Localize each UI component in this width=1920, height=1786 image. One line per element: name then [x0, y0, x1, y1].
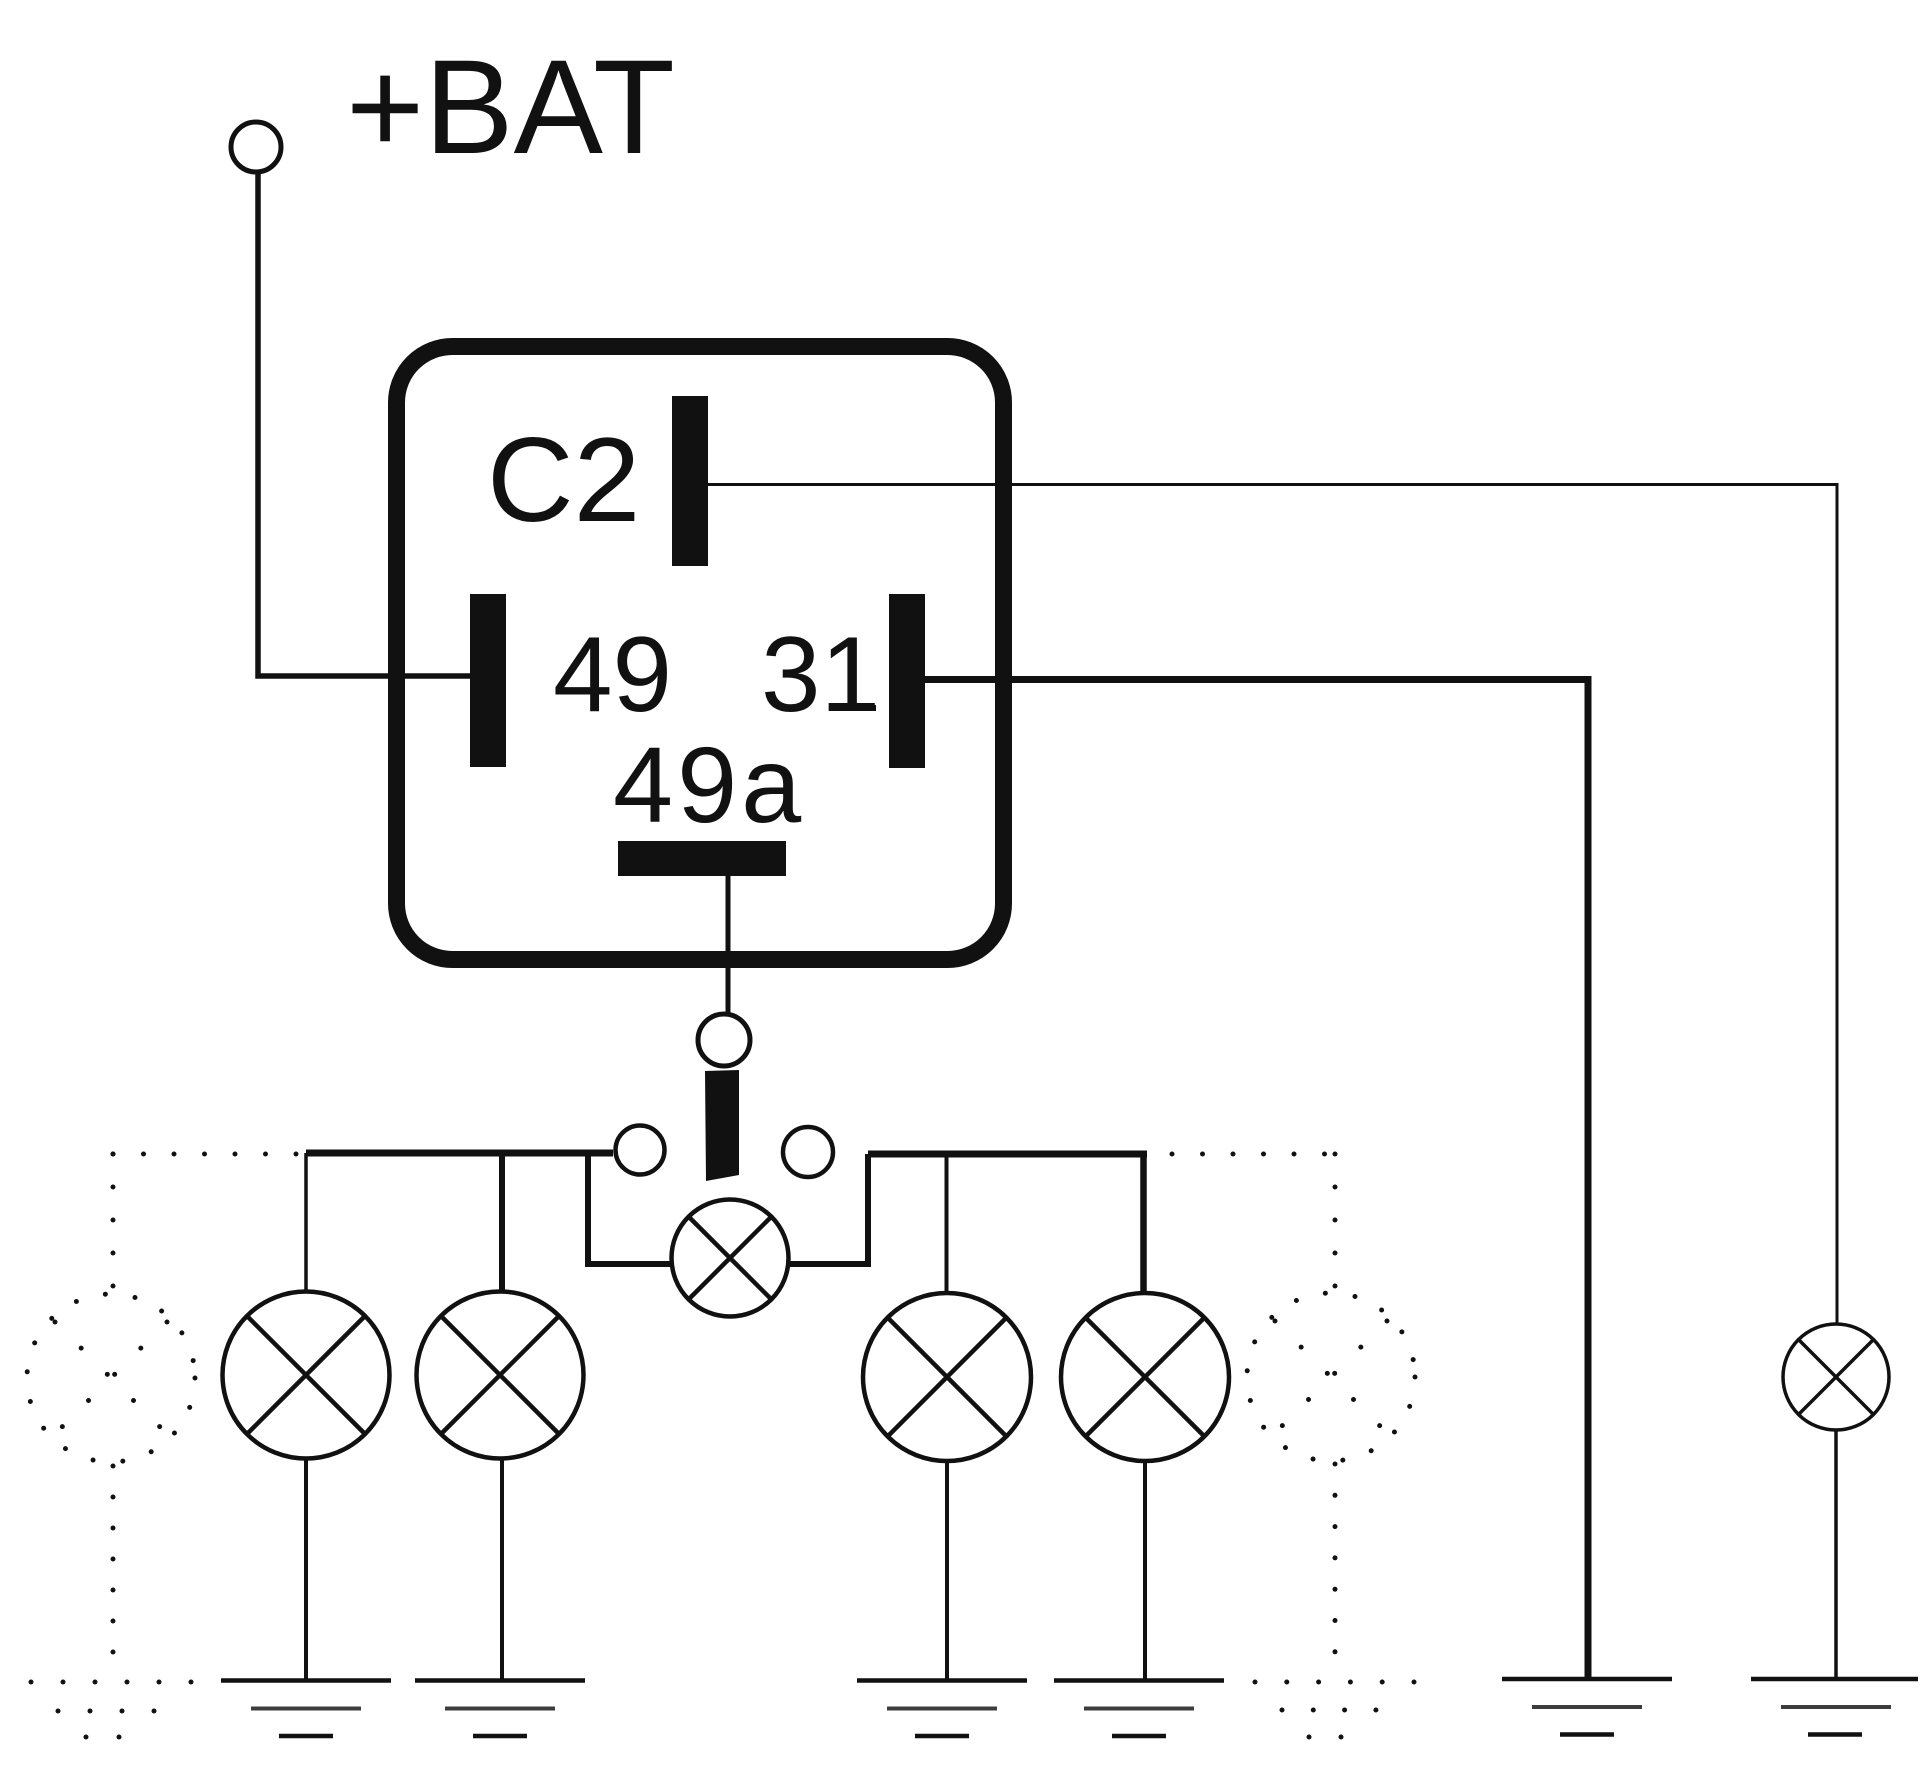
svg-text:+BAT: +BAT	[346, 33, 675, 182]
svg-text:49: 49	[553, 614, 672, 734]
svg-text:49a: 49a	[613, 724, 805, 845]
svg-text:31: 31	[761, 614, 880, 734]
svg-text:C2: C2	[487, 413, 640, 547]
